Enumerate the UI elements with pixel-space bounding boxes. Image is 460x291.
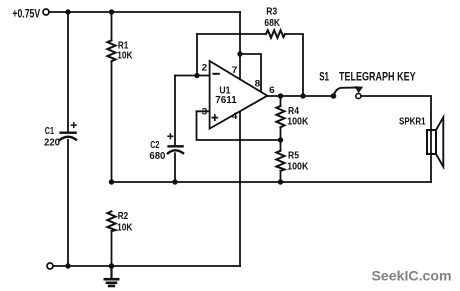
svg-text:220: 220 bbox=[44, 137, 60, 148]
svg-text:10K: 10K bbox=[117, 222, 133, 233]
svg-text:68K: 68K bbox=[264, 18, 280, 29]
node C1 top junction bbox=[65, 9, 70, 14]
wire pin 8 bbox=[240, 54, 261, 92]
svg-text:8: 8 bbox=[255, 79, 261, 90]
terminal +0.75V bbox=[43, 9, 49, 15]
speaker SPKR1 bbox=[427, 117, 443, 166]
node R4 top junction bbox=[278, 93, 283, 98]
node C1 bottom junction bbox=[65, 263, 70, 268]
svg-text:+0.75V: +0.75V bbox=[12, 9, 40, 21]
node pin2 junction bbox=[194, 73, 199, 78]
resistor R5 bbox=[276, 140, 284, 182]
wire mid rail bbox=[112, 181, 432, 183]
capacitor C2 bbox=[168, 134, 183, 153]
wire bottom rail bbox=[53, 265, 240, 267]
svg-text:100K: 100K bbox=[287, 161, 309, 172]
svg-text:C1: C1 bbox=[45, 126, 55, 137]
resistor R4 bbox=[276, 96, 284, 140]
node ground junction bbox=[109, 263, 115, 269]
op-amp plus sign bbox=[212, 115, 217, 120]
svg-text:7611: 7611 bbox=[215, 95, 237, 106]
wire C2 bottom branch bbox=[174, 153, 176, 182]
wire pin2 vertical bbox=[196, 34, 198, 76]
switch S1 pole node bbox=[331, 93, 337, 99]
wire top rail corner down to pin7 bbox=[239, 12, 241, 54]
wire C2 top branch bbox=[174, 76, 176, 147]
svg-text:680: 680 bbox=[149, 151, 165, 162]
node R1 top junction bbox=[109, 9, 114, 14]
resistor R1 bbox=[107, 12, 115, 182]
wire pin2 horizontal bbox=[175, 75, 210, 77]
node R1/R2 mid junction bbox=[109, 179, 114, 184]
node R3 return junction bbox=[300, 93, 305, 98]
wire pin4 to ground rail bbox=[239, 111, 241, 266]
op-amp minus sign bbox=[213, 73, 218, 75]
svg-text:R2: R2 bbox=[118, 211, 129, 222]
resistor R2 bbox=[107, 211, 115, 266]
wire output pin6 bbox=[267, 95, 333, 97]
svg-text:10K: 10K bbox=[117, 51, 133, 62]
node R5 bottom junction bbox=[278, 179, 283, 184]
svg-text:100K: 100K bbox=[287, 117, 309, 128]
switch S1 arrowhead bbox=[354, 86, 363, 93]
wire feedback from pin2 to R3 bbox=[197, 33, 266, 35]
svg-text:S1: S1 bbox=[319, 69, 329, 83]
node C2 bottom junction bbox=[172, 179, 177, 184]
node R4/R5 junction bbox=[278, 137, 283, 142]
resistor R3 bbox=[266, 30, 285, 38]
svg-text:TELEGRAPH KEY: TELEGRAPH KEY bbox=[339, 69, 416, 83]
svg-text:4: 4 bbox=[232, 111, 238, 122]
terminal bottom left bbox=[47, 263, 53, 269]
svg-text:7: 7 bbox=[232, 65, 238, 76]
svg-text:R3: R3 bbox=[266, 7, 277, 18]
svg-text:R5: R5 bbox=[288, 151, 299, 162]
wire C1 top branch bbox=[67, 12, 69, 133]
node pin7/pin8 junction bbox=[237, 51, 242, 56]
svg-text:SeekIC.com: SeekIC.com bbox=[372, 268, 452, 284]
capacitor C1 bbox=[60, 123, 76, 140]
ground bbox=[105, 266, 118, 286]
wire top rail bbox=[49, 11, 240, 13]
wire pin3 loop bbox=[197, 111, 281, 140]
wire switch to speaker bbox=[361, 96, 431, 182]
switch S1 lever bbox=[334, 88, 356, 96]
switch S1 throw contact bbox=[356, 93, 361, 98]
op-amp U1 triangle bbox=[210, 61, 268, 129]
wire R3 to output bbox=[285, 34, 303, 96]
svg-text:2: 2 bbox=[202, 62, 208, 73]
svg-text:6: 6 bbox=[269, 85, 275, 96]
svg-text:C2: C2 bbox=[150, 140, 160, 151]
svg-text:SPKR1: SPKR1 bbox=[399, 117, 426, 128]
wire C1 bottom branch bbox=[67, 140, 69, 266]
wire pin 7 bbox=[239, 54, 241, 79]
